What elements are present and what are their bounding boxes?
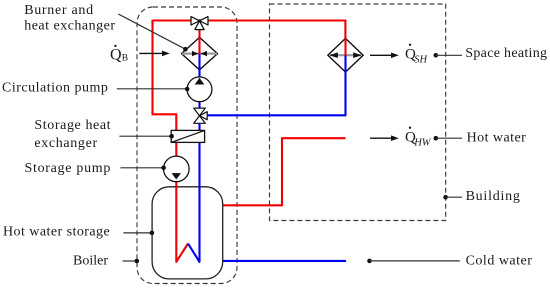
svg-text:Burner and: Burner and <box>24 3 94 18</box>
wire: hot into HX1 (red, inside diamond) <box>198 37 200 54</box>
label line: space heating <box>436 54 462 56</box>
label line: hot water <box>436 137 462 139</box>
node: dot on HX1 edge <box>183 47 188 52</box>
svg-text:Circulation pump: Circulation pump <box>2 81 108 96</box>
storage pump P2 <box>164 156 190 182</box>
svg-text:Hot water: Hot water <box>467 131 527 146</box>
node: dot on pump P1 <box>185 87 190 92</box>
label line: storage pump <box>120 167 163 169</box>
wire: return out of HX3 (blue, inside diamond) <box>344 56 346 72</box>
burner and heat exchanger HX1 (diamond) <box>182 37 218 69</box>
label line: hot water storage <box>123 232 151 234</box>
svg-text:exchanger: exchanger <box>34 136 97 151</box>
svg-text:Q: Q <box>110 47 122 64</box>
arrow: Q_SH heat output <box>370 54 392 56</box>
svg-text:B: B <box>122 54 128 64</box>
HX3 heat-flow line with outward arrows <box>330 54 361 56</box>
wire: tank coil hot side (red) <box>176 187 188 262</box>
valve V1 (3-way valve, top manifold) <box>191 17 208 30</box>
label line: building <box>446 196 462 198</box>
wire: hot water service line (red) <box>223 138 346 206</box>
node: space heating dot <box>434 53 439 58</box>
circulation pump P1 <box>187 77 212 102</box>
wire: cold water service line (blue) <box>223 260 347 262</box>
label line: burner and heat exchanger <box>118 14 185 49</box>
arrow: Q_HW heat output <box>370 137 392 139</box>
wire: tank coil cold side (blue) <box>188 187 200 262</box>
wire: burner outlet column (blue) <box>198 69 200 189</box>
wire: SH riser drop (red) <box>344 20 346 39</box>
node: dot on pump P2 <box>161 166 166 171</box>
node: dot on tank T1 <box>150 231 155 236</box>
label line: boiler <box>123 260 137 262</box>
label line: circulation pump <box>117 88 187 90</box>
boiler boundary (dashed rounded box) <box>137 7 237 284</box>
wire: storage column drop (red) <box>175 113 177 189</box>
svg-text:SH: SH <box>414 54 428 65</box>
svg-text:HW: HW <box>413 137 432 148</box>
label line: storage heat exchanger <box>119 135 171 137</box>
wire: hot supply manifold (red, top) <box>153 19 346 21</box>
svg-text:Storage pump: Storage pump <box>25 161 112 176</box>
node: dot on HX2 <box>169 134 174 139</box>
svg-text:Storage heat: Storage heat <box>34 118 111 133</box>
node: dot on boiler boundary <box>135 259 140 264</box>
node: building dot <box>443 195 448 200</box>
label line: cold water <box>370 260 460 262</box>
HX1 heat-flow line with inward arrows <box>182 52 217 54</box>
arrow: Q_B heat input <box>139 52 162 54</box>
node: cold water dot <box>367 259 372 264</box>
hot water storage tank T1 <box>152 187 223 279</box>
wire: space-heating return (blue) <box>207 71 347 115</box>
space heating heat exchanger HX3 (diamond) <box>328 38 363 72</box>
wire: valve branch to burner HX (red) <box>198 29 200 39</box>
svg-text:heat exchanger: heat exchanger <box>24 19 115 34</box>
node: hot water dot <box>434 136 439 141</box>
valve V2 (3-way valve, vertical) <box>194 108 208 123</box>
building boundary (dashed box) <box>270 4 446 221</box>
svg-text:Building: Building <box>466 189 521 204</box>
svg-text:Cold water: Cold water <box>466 254 533 269</box>
svg-text:Hot water storage: Hot water storage <box>3 224 110 239</box>
storage heat exchanger HX2 (rect with diagonal) <box>171 130 204 142</box>
wire: hot elbow to storage column (red) <box>152 113 177 115</box>
wire: cooled out of HX1 (blue, inside diamond) <box>198 54 200 70</box>
svg-text:Space heating: Space heating <box>465 46 547 61</box>
svg-text:Boiler: Boiler <box>73 253 108 268</box>
wire: hot into HX3 (red, inside diamond) <box>344 38 346 56</box>
wire: hot drop left (red) <box>151 20 153 115</box>
